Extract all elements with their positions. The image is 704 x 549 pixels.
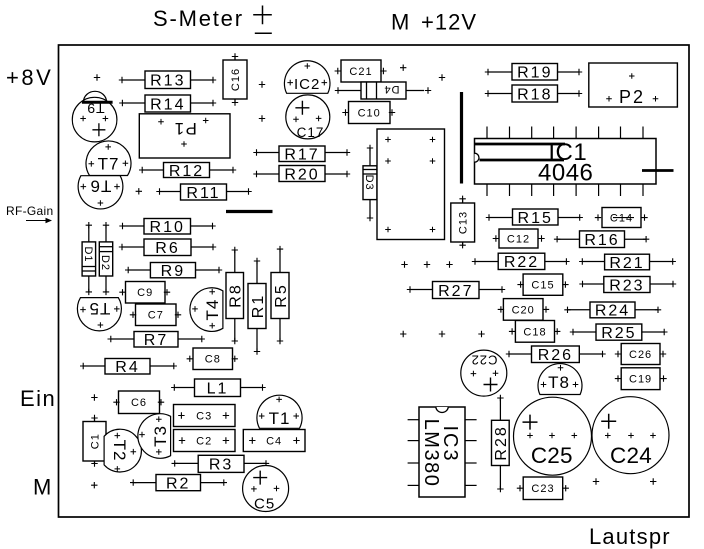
resistor R1 (248, 258, 267, 355)
pad node (136, 188, 142, 194)
capacitor C13 (451, 196, 475, 249)
transistor T8 (538, 364, 582, 395)
transistor T1 (257, 395, 302, 428)
svg-text:T3: T3 (151, 425, 170, 447)
pad node (400, 331, 406, 337)
svg-text:P1: P1 (173, 119, 197, 138)
svg-text:C6: C6 (131, 397, 147, 409)
svg-text:C9: C9 (137, 287, 153, 299)
resistor R17 (253, 146, 350, 164)
capacitor C18 (509, 321, 561, 343)
resistor R26 (506, 346, 606, 364)
svg-text:C3: C3 (196, 411, 212, 423)
pad node (439, 331, 445, 337)
pad node (91, 482, 97, 488)
capacitor C26 (615, 344, 666, 365)
module block (transformer/filter) (377, 129, 445, 240)
svg-text:R1: R1 (250, 294, 267, 318)
svg-text:4046: 4046 (538, 160, 593, 187)
svg-text:C16: C16 (230, 68, 242, 91)
svg-text:C13: C13 (458, 211, 470, 234)
svg-text:T6: T6 (90, 176, 112, 195)
svg-text:T1: T1 (269, 409, 291, 428)
resistor R5 (271, 246, 290, 344)
svg-text:R14: R14 (150, 96, 185, 113)
svg-text:R17: R17 (284, 147, 319, 164)
capacitor C21 (335, 60, 387, 82)
resistor R16 (554, 231, 649, 249)
svg-text:C1: C1 (90, 433, 102, 449)
electrolytic C22 (label struck) (461, 350, 507, 396)
capacitor C15 (517, 274, 568, 295)
resistor R3 (172, 455, 270, 473)
pad node (478, 331, 484, 337)
pad node (650, 478, 656, 484)
svg-text:C23: C23 (531, 483, 554, 495)
svg-text:R13: R13 (150, 73, 185, 90)
pad node (593, 478, 599, 484)
svg-text:R22: R22 (504, 254, 539, 271)
capacitor C1 (83, 415, 106, 467)
resistor R23 (579, 277, 676, 295)
svg-text:R9: R9 (161, 263, 185, 280)
resistor R14 (119, 95, 216, 113)
capacitor C8 (187, 348, 238, 370)
svg-text:IC2: IC2 (294, 76, 320, 93)
potentiometer P2 (589, 63, 678, 107)
inductor L1 (171, 379, 266, 398)
capacitor C9 (119, 282, 170, 304)
svg-text:C22: C22 (471, 353, 498, 368)
capacitor C6 (113, 391, 164, 414)
svg-text:LM380: LM380 (420, 419, 442, 488)
resistor R12 (139, 163, 236, 180)
svg-text:D3: D3 (363, 175, 375, 191)
svg-text:R5: R5 (273, 283, 290, 307)
svg-text:C10: C10 (358, 108, 381, 120)
RF-Gain arrow (26, 218, 52, 223)
resistor R6 (119, 239, 216, 257)
svg-text:T7: T7 (98, 155, 120, 174)
resistor R19 (485, 64, 582, 82)
svg-text:D2: D2 (99, 255, 111, 271)
transistor T3 (138, 414, 171, 459)
svg-text:R15: R15 (518, 210, 553, 227)
svg-text:R27: R27 (438, 283, 473, 300)
diode D3 (363, 145, 377, 221)
electrolytic C5 (243, 466, 289, 513)
resistor R15 (486, 209, 583, 227)
capacitor C12 (493, 229, 545, 248)
svg-text:P2: P2 (619, 87, 645, 107)
svg-text:C25: C25 (531, 443, 573, 468)
transistor T7 (86, 141, 131, 176)
resistor R28 (492, 395, 511, 492)
pad node (401, 261, 407, 267)
pad node (446, 261, 452, 267)
svg-text:R28: R28 (493, 425, 510, 460)
svg-text:C8: C8 (205, 354, 221, 366)
resistor R21 (579, 254, 676, 272)
electrolytic C17 (286, 95, 330, 140)
svg-text:T2: T2 (110, 440, 129, 462)
svg-text:C17: C17 (297, 125, 325, 140)
capacitor C2 (174, 430, 236, 452)
svg-text:R4: R4 (115, 359, 139, 376)
pad node (400, 65, 406, 71)
IC IC3 LM380 (408, 407, 477, 497)
resistor R2 (130, 475, 227, 493)
svg-text:Lautspr: Lautspr (589, 524, 671, 549)
svg-text:RF-Gain: RF-Gain (6, 204, 53, 218)
resistor R22 (472, 253, 570, 271)
svg-text:R3: R3 (209, 457, 233, 474)
capacitor C19 (615, 368, 667, 390)
capacitor C20 (498, 299, 550, 321)
svg-text:R24: R24 (595, 303, 630, 320)
resistor R13 (119, 71, 216, 90)
resistor R25 (570, 324, 668, 342)
pad node (259, 115, 265, 121)
svg-text:T5: T5 (88, 299, 110, 318)
pad node (259, 81, 265, 87)
svg-text:+8V: +8V (6, 65, 53, 90)
capacitor C10 (342, 102, 395, 124)
svg-text:C14: C14 (610, 213, 633, 225)
PCB board outline (59, 45, 690, 517)
resistor R8 (226, 247, 245, 344)
wire: thick vertical trace (460, 92, 463, 184)
svg-text:R2: R2 (166, 475, 190, 492)
svg-text:R8: R8 (228, 283, 245, 307)
IC IC1 4046 (475, 127, 674, 197)
svg-text:C5: C5 (254, 496, 275, 513)
svg-text:R11: R11 (186, 185, 220, 202)
electrolytic C25 (514, 397, 592, 475)
svg-text:R18: R18 (517, 86, 552, 103)
svg-text:Ein: Ein (20, 386, 56, 411)
capacitor C16 (223, 53, 247, 105)
svg-text:R7: R7 (144, 332, 168, 349)
capacitor C23 (517, 477, 569, 500)
svg-text:R19: R19 (517, 65, 552, 82)
svg-text:L1: L1 (207, 381, 229, 398)
svg-text:R16: R16 (584, 232, 619, 249)
electrolytic T9 (struck label) (72, 91, 117, 142)
pad node (91, 394, 97, 400)
svg-text:M: M (391, 10, 410, 35)
svg-text:C2: C2 (196, 436, 212, 448)
transistor T5 (77, 298, 121, 331)
capacitor C3 (174, 405, 236, 427)
svg-text:R26: R26 (538, 347, 573, 364)
resistor R9 (125, 263, 222, 280)
svg-text:C7: C7 (148, 310, 164, 322)
resistor R10 (119, 219, 215, 237)
svg-text:D4: D4 (383, 83, 399, 95)
resistor R18 (485, 85, 582, 103)
diode D4 (335, 82, 431, 99)
svg-text:R6: R6 (155, 240, 179, 257)
pad node (424, 261, 430, 267)
svg-text:T4: T4 (203, 299, 222, 321)
resistor R4 (80, 359, 177, 377)
svg-text:C26: C26 (629, 349, 652, 361)
svg-text:C20: C20 (512, 304, 535, 316)
svg-text:R12: R12 (169, 163, 204, 180)
svg-text:T8: T8 (548, 373, 570, 392)
svg-text:S-Meter: S-Meter (153, 6, 244, 31)
diode D1 (82, 222, 96, 295)
svg-text:M: M (33, 475, 52, 500)
svg-text:R23: R23 (609, 277, 644, 294)
svg-text:C4: C4 (266, 436, 282, 448)
svg-text:C21: C21 (349, 66, 372, 78)
svg-text:D1: D1 (82, 246, 94, 262)
svg-text:C24: C24 (610, 443, 652, 468)
svg-text:R21: R21 (609, 255, 644, 272)
svg-text:R25: R25 (601, 325, 636, 342)
svg-text:C15: C15 (531, 280, 554, 292)
pad node near +8V (94, 74, 100, 80)
capacitor C7 (130, 304, 181, 326)
svg-text:+12V: +12V (421, 10, 477, 35)
resistor R7 (108, 332, 205, 350)
svg-text:C12: C12 (507, 234, 530, 246)
svg-text:R20: R20 (284, 166, 319, 183)
resistor R27 (407, 282, 505, 300)
capacitor C14 (595, 208, 648, 228)
potentiometer P1 (139, 114, 230, 158)
IC IC2 (284, 61, 330, 94)
resistor R11 (156, 184, 251, 202)
diode D2 (99, 222, 113, 295)
pad node (439, 74, 445, 80)
svg-text:C18: C18 (523, 326, 546, 338)
transistor T6 (78, 176, 123, 209)
electrolytic C24 (592, 397, 669, 474)
svg-text:R10: R10 (150, 219, 185, 236)
svg-text:C19: C19 (629, 374, 652, 386)
resistor R20 (253, 166, 350, 184)
wire: thick trace segment (226, 210, 273, 213)
resistor R24 (564, 302, 661, 320)
polarity symbol plus-minus (253, 6, 272, 34)
transistor T2 (104, 429, 141, 472)
capacitor C4 (243, 430, 305, 452)
transistor T4 (190, 288, 223, 332)
